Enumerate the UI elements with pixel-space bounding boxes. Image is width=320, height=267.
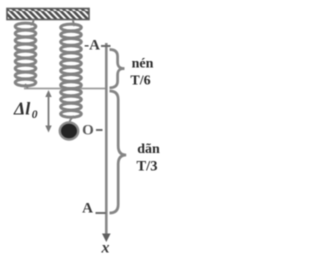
axis arrowhead xyxy=(102,234,111,243)
ceiling (hatched support) xyxy=(7,9,89,20)
middle spring (with mass) xyxy=(61,20,82,123)
svg-text:x: x xyxy=(101,240,110,257)
mass ball at O xyxy=(60,123,78,140)
x axis (vertical) xyxy=(105,43,108,237)
delta-l0 double arrow xyxy=(45,90,51,133)
svg-text:T/3: T/3 xyxy=(137,159,158,175)
brace dan (from natural length to A) xyxy=(110,91,127,213)
svg-text:Δl0: Δl0 xyxy=(13,99,38,122)
left spring (natural length, no mass) xyxy=(15,20,36,89)
tick -A xyxy=(101,45,111,47)
tick A xyxy=(96,212,107,214)
natural length level line xyxy=(24,88,106,90)
svg-text:dãn: dãn xyxy=(137,142,160,157)
svg-text:A: A xyxy=(82,201,93,217)
svg-text:O: O xyxy=(82,123,94,139)
svg-text:-A: -A xyxy=(84,38,100,54)
tick O xyxy=(96,129,103,131)
brace nen (from -A to natural length) xyxy=(110,50,125,88)
svg-text:nén: nén xyxy=(132,57,154,72)
svg-text:T/6: T/6 xyxy=(130,74,150,89)
